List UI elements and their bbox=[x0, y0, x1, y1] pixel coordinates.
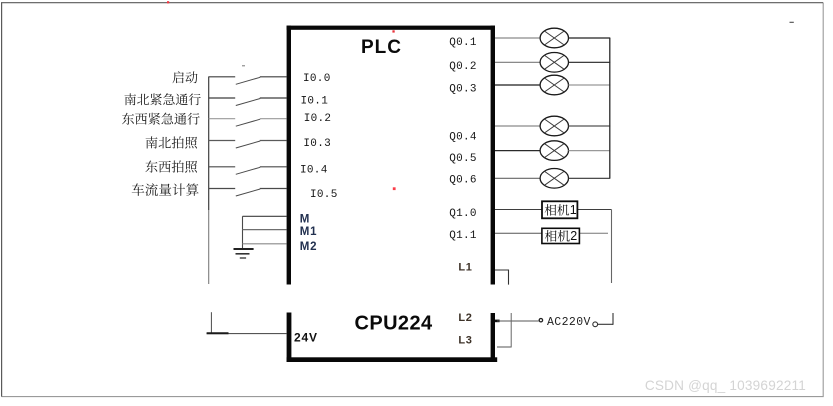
svg-text:Q0.2: Q0.2 bbox=[449, 61, 477, 73]
svg-text:Q0.1: Q0.1 bbox=[449, 37, 477, 49]
svg-text:AC220V: AC220V bbox=[547, 316, 591, 329]
svg-text:Q0.6: Q0.6 bbox=[449, 175, 477, 187]
svg-text:CPU224: CPU224 bbox=[355, 312, 433, 334]
svg-text:PLC: PLC bbox=[361, 37, 402, 58]
svg-text:I0.3: I0.3 bbox=[303, 138, 331, 150]
svg-text:L1: L1 bbox=[458, 261, 472, 273]
svg-text:CSDN @qq_ 1039692211: CSDN @qq_ 1039692211 bbox=[645, 378, 806, 393]
svg-text:Q0.5: Q0.5 bbox=[449, 153, 477, 165]
svg-text:L2: L2 bbox=[458, 312, 472, 324]
svg-text:Q1.0: Q1.0 bbox=[449, 208, 477, 220]
svg-text:L3: L3 bbox=[458, 335, 472, 347]
svg-text:M1: M1 bbox=[300, 226, 318, 238]
svg-text:Q0.4: Q0.4 bbox=[449, 131, 477, 143]
svg-text:I0.2: I0.2 bbox=[304, 113, 332, 125]
svg-text:I0.1: I0.1 bbox=[301, 96, 329, 108]
svg-text:I0.0: I0.0 bbox=[303, 73, 331, 85]
svg-text:1: 1 bbox=[570, 203, 577, 217]
svg-text:24V: 24V bbox=[294, 330, 318, 344]
svg-text:M: M bbox=[300, 213, 310, 225]
svg-text:Q0.3: Q0.3 bbox=[449, 83, 477, 95]
svg-text:Q1.1: Q1.1 bbox=[449, 230, 477, 242]
svg-text:I0.4: I0.4 bbox=[300, 165, 328, 177]
svg-text:I0.5: I0.5 bbox=[310, 189, 338, 201]
svg-text:M2: M2 bbox=[300, 241, 318, 253]
svg-text:2: 2 bbox=[570, 229, 577, 243]
